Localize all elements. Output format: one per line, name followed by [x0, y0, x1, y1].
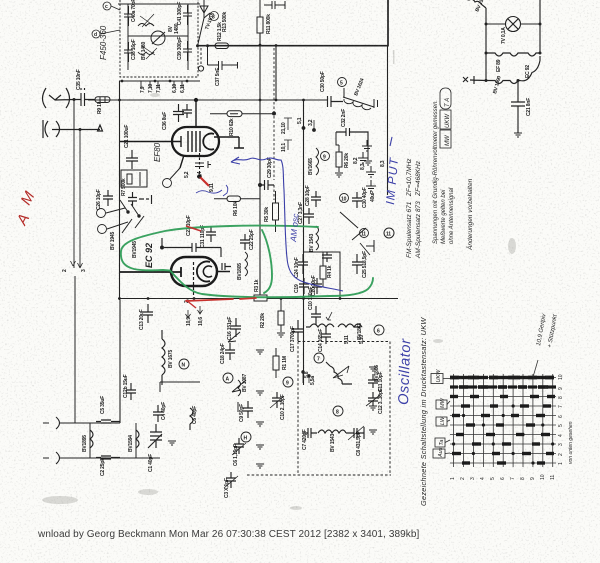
- capacitor C38 16pF: [124, 42, 133, 62]
- detector section top right of can: [198, 0, 286, 71]
- wire R11 top to cap: [259, 0, 261, 17]
- capacitor C25 518.5pF: [352, 254, 362, 274]
- capacitor C35 10nF: [74, 88, 95, 106]
- junction dots y=100: [118, 99, 305, 102]
- EF80 internal electrodes: [120, 131, 200, 152]
- resistor R12 1.5k (pill on bus): [215, 43, 229, 49]
- grounds column mid right: [358, 140, 376, 191]
- blue curved arrow near C29: [231, 157, 343, 291]
- capacitor C21 100uF: [126, 150, 138, 169]
- coil BV1805: [245, 252, 248, 276]
- coil BV1675: [162, 330, 165, 385]
- capacitor C34 near switch: [128, 192, 152, 206]
- circled 10: [340, 194, 349, 203]
- coil BV1895: [90, 430, 93, 448]
- resistor R3 1k on bus: [254, 295, 267, 301]
- blue T overline: [390, 137, 392, 146]
- resistor R7 box: [121, 170, 147, 187]
- heater coil BV15.. top: [465, 0, 486, 8]
- capacitor C8 431.5pF trimmer: [348, 426, 364, 440]
- resistor R9 1k: [95, 97, 110, 103]
- capacitor C4 40pF: [153, 405, 163, 422]
- wire: row label leaders: [443, 379, 450, 454]
- resistor R2 20k: [277, 298, 285, 337]
- wire stub 5,1 5,2: [302, 118, 316, 132]
- capacitor C13 20uF: [143, 304, 153, 323]
- coil BV1543 (IF): [316, 226, 319, 250]
- wire: vertical x=260 from R11 to y=298: [259, 33, 261, 298]
- capacitor C9 50pF: [243, 401, 253, 418]
- circled 11: [360, 229, 369, 238]
- capacitor C12 3..30pF trimmer: [366, 392, 380, 410]
- wire: top bus above IF can: [118, 3, 200, 5]
- capacitor C6 1.15pF: [232, 438, 246, 455]
- green traced wire (signal path): [121, 226, 373, 298]
- wire: FM input verticals: [90, 423, 136, 458]
- capacitor at EF80 cathode: [195, 161, 211, 168]
- circled 3: [210, 12, 219, 21]
- oscillator coil with arrow: [326, 362, 352, 384]
- capacitor C10 130pF: [311, 306, 321, 325]
- capacitor C28 10pF: [311, 191, 321, 207]
- stubs below IF can bus: [141, 81, 182, 88]
- capacitor C21h 8nF: [511, 81, 525, 134]
- wire C24 R4 frame: [303, 252, 340, 298]
- capacitor C24 10nF: [298, 254, 308, 274]
- blue scribble note: [196, 185, 228, 196]
- heater EC92 winding: [486, 56, 540, 84]
- coil BV1543 osc: [318, 430, 352, 433]
- capacitor C26 10pF: [103, 190, 113, 206]
- smudge marks: [42, 50, 516, 510]
- capacitor C30 50pF: [328, 96, 344, 107]
- capacitor C32 2nF: [336, 128, 368, 145]
- tube EC92 (U2): [171, 257, 217, 286]
- switch row label box UKW: [431, 374, 443, 384]
- dial lamp LP1: [486, 17, 540, 32]
- capacitor C23 10pF above EC92: [161, 238, 221, 257]
- circled N: [179, 359, 189, 369]
- capacitor C27 3.3nF: [304, 208, 314, 224]
- switch row label box MW: [436, 400, 447, 409]
- capacitor C25b on frame: [322, 252, 332, 262]
- grounds left oscillator column: [256, 350, 264, 468]
- junction dot C21h: [517, 79, 520, 82]
- wire stub 5,8: [302, 370, 311, 383]
- junction dot plug: [79, 128, 82, 131]
- capacitor C33 above EF80: [182, 104, 192, 118]
- switch row label box Ta: [435, 438, 445, 447]
- capacitor C12b 15uF: [126, 383, 136, 400]
- capacitor C41 300pF: [183, 5, 192, 25]
- switch arrow C16: [228, 332, 240, 342]
- terminal circle c: [103, 2, 111, 10]
- red pen labels 11,4: [186, 300, 196, 308]
- wire: single vertical x=75 down to FM box: [74, 276, 76, 423]
- wire: vertical x=388 y 45-195: [387, 45, 389, 195]
- anode cap stub: [222, 263, 231, 270]
- switch diagonal near 11b: [360, 243, 370, 255]
- pin arrows 2 3: [71, 261, 83, 268]
- wire: FM box frame partial: [160, 382, 200, 392]
- circled 9: [321, 152, 330, 161]
- wire: antenna down: [73, 100, 75, 130]
- resistor R4 1k: [320, 258, 326, 287]
- capacitor C37 5nF: [208, 46, 238, 70]
- capacitor C36 8uF: [173, 104, 184, 122]
- wire: bus below IF can y=81: [119, 80, 200, 82]
- capacitor C20 30pF: [312, 278, 322, 294]
- capacitor C14 165pF: [321, 327, 331, 344]
- pointer line to grid: [533, 360, 538, 377]
- capacitor C19: [299, 278, 309, 294]
- wire: vertical x=120 y=300-423: [119, 300, 121, 423]
- coil BV1624 (slanted): [343, 88, 378, 110]
- ground FM mid: [168, 441, 176, 445]
- X terminal: [463, 76, 486, 84]
- circled 9b: [283, 377, 293, 387]
- capacitor C7 420pF: [302, 428, 317, 438]
- capacitor C2 25pF: [96, 456, 120, 459]
- junction dots under IF can: [121, 80, 189, 83]
- red overdraw on bus: [186, 298, 256, 301]
- coil BV1480 label marks: [140, 14, 157, 59]
- junction dots heater: [485, 23, 542, 83]
- junction dot R11: [259, 44, 262, 47]
- resistor R8 20k: [335, 132, 372, 177]
- coil BV1665: [316, 148, 319, 175]
- switch row label box Aus: [433, 449, 445, 458]
- junction dots on bus y=46: [196, 44, 209, 47]
- circled 11b: [384, 228, 394, 238]
- switch matrix grid: [450, 374, 556, 467]
- wire: long vertical x=119.5: [119, 81, 121, 300]
- tube EF80 (U1): [172, 127, 219, 156]
- circled 7: [314, 353, 324, 363]
- resistor R1 1M: [273, 348, 279, 378]
- capacitor C10 2..10pF trimmer: [270, 392, 284, 408]
- wire: vertical x=274: [273, 112, 276, 200]
- dashed oscillator box: [247, 342, 391, 476]
- wire EF80 cathode to k: [170, 168, 180, 179]
- switch position boxes MW UKW TA: [440, 88, 451, 148]
- wire: IF can internal frame: [128, 4, 188, 70]
- switch matrix row numbers right: [558, 374, 564, 465]
- red pen slash 9,11: [200, 177, 209, 186]
- switch matrix contact dots: [452, 376, 554, 465]
- wire stubs 10,9 10,6: [186, 306, 203, 318]
- ground C21h: [514, 133, 522, 137]
- capacitor C29 20pF: [259, 180, 275, 190]
- capacitor C44: [264, 1, 285, 9]
- antenna coupling plug: [43, 120, 103, 138]
- circled H: [241, 432, 251, 442]
- coil BV1594: [136, 430, 139, 448]
- coil L1 with tuning core: [138, 24, 165, 55]
- capacitor C3 trimmer: [224, 472, 238, 488]
- diode TV-1918: [198, 0, 211, 46]
- coil BV1863 pair: [306, 312, 362, 327]
- capacitor C5 35uF: [96, 420, 120, 423]
- capacitor C39 300pF: [183, 41, 192, 61]
- switch matrix contact marks: [450, 376, 555, 465]
- capacitor C30b 40pF: [352, 192, 362, 208]
- heater EF89 winding: [486, 53, 540, 56]
- red slash top: [186, 226, 201, 231]
- capacitor C22 25pF: [240, 234, 250, 250]
- circled 5: [338, 78, 347, 87]
- FM antenna terminal 2: [43, 452, 160, 464]
- coil right FM box: [190, 408, 193, 430]
- EC92 grid dashed: [193, 262, 195, 297]
- capacitor C17 3700pF: [292, 320, 304, 341]
- dashed linkage x=201: [200, 48, 202, 65]
- resistor R5 30k: [273, 191, 279, 232]
- wire: double vertical from antenna x=74,80: [74, 130, 80, 269]
- wire: heater right vertical x=540: [539, 0, 541, 53]
- coil BV1087 with switch: [232, 380, 246, 412]
- wire: AGC line y=100: [88, 99, 327, 101]
- FM antenna terminal 1: [43, 417, 120, 429]
- wire: top box edge y=45 with corner at x=388: [198, 0, 389, 46]
- wire: vertical x=276 y=46-100: [275, 46, 277, 100]
- resistor R11 800k: [257, 17, 263, 33]
- extra UKW row marks: [450, 376, 556, 389]
- circled 8: [333, 406, 343, 416]
- switch contact near 11: [340, 212, 374, 252]
- stub 21,10: [284, 118, 292, 150]
- wire: long horizontal y=298: [118, 298, 398, 300]
- dashed linkage x=274: [273, 48, 275, 180]
- switch row label box LW: [436, 417, 447, 426]
- wire: leader lines from terminals to can: [100, 6, 120, 34]
- circled 6: [374, 325, 384, 335]
- resistor R6 10k: [214, 196, 260, 202]
- grounds oscillator right column: [369, 430, 377, 434]
- EC92 internal electrodes: [120, 262, 210, 282]
- terminal circle i: [98, 225, 107, 234]
- variable capacitor C1 40pF: [148, 424, 162, 448]
- heater bus left x=486: [485, 8, 487, 81]
- IF transformer can F450-360 (dashed box): [120, 0, 198, 77]
- resistor R10 62k: [210, 111, 274, 117]
- wire: vertical x=303 y=100-385: [303, 100, 305, 385]
- switch matrix column numbers: [450, 474, 556, 480]
- terminal circle k: [163, 179, 172, 188]
- antenna symbol (dipole): [43, 88, 75, 108]
- junction dot antenna: [73, 98, 76, 101]
- capacitor C18 24pF: [225, 343, 235, 360]
- terminal circle e: [97, 209, 106, 218]
- circled A: [182, 363, 184, 365]
- junction dots y=298 bus: [118, 297, 341, 300]
- capacitor C31 110pF: [206, 226, 216, 242]
- terminal circle d: [92, 30, 100, 38]
- capacitor C40a 70pF: [124, 6, 133, 26]
- capacitor C11 10pF: [368, 367, 378, 388]
- EF80 pin wires: [180, 100, 244, 168]
- switch contacts S1: [106, 200, 144, 233]
- capacitor C16 151pF: [231, 318, 241, 337]
